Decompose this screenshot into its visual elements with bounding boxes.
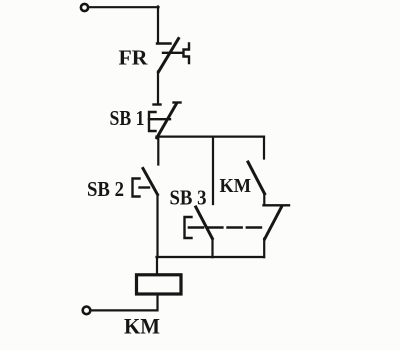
svg-text:FR: FR bbox=[119, 46, 149, 70]
pushbutton SB2 (NO start button) bbox=[133, 169, 158, 197]
svg-text:SB 3: SB 3 bbox=[170, 186, 207, 210]
terminal bottom-left bbox=[83, 307, 91, 315]
wire middle branch down bbox=[212, 137, 214, 204]
node junction bottom rail bbox=[157, 256, 265, 258]
wire KM contact to SB3 NC contact bbox=[263, 194, 265, 206]
pushbutton SB3 (NO jog button) bbox=[185, 207, 213, 239]
node junction top rail bbox=[157, 136, 265, 138]
wire NC contact to bottom rail bbox=[263, 239, 265, 258]
terminal top-left bbox=[81, 4, 88, 11]
wire FR to SB1 bbox=[157, 72, 159, 105]
svg-text:SB 1: SB 1 bbox=[110, 106, 145, 130]
svg-text:KM: KM bbox=[124, 314, 160, 339]
wire coil to terminal bbox=[92, 295, 158, 311]
svg-text:SB 2: SB 2 bbox=[87, 177, 124, 201]
FR thermal element symbol bbox=[184, 44, 190, 64]
pushbutton SB1 (NC stop button) bbox=[149, 103, 181, 138]
contact SB3 NC (linked break contact) bbox=[264, 205, 290, 239]
wire SB3 to bottom rail bbox=[211, 239, 213, 258]
wire top horizontal bbox=[90, 6, 159, 8]
wire vertical to FR bbox=[157, 7, 159, 44]
wire right branch down bbox=[263, 137, 265, 159]
wire to coil bbox=[156, 257, 158, 274]
wire left rail to SB2 bbox=[157, 137, 159, 165]
contact KM (NO self-holding auxiliary) bbox=[248, 162, 265, 194]
FR contact (NC thermal relay contact) bbox=[157, 39, 183, 72]
coil KM bbox=[137, 275, 182, 294]
mechanical linkage dashed bbox=[189, 226, 265, 229]
svg-text:KM: KM bbox=[220, 175, 252, 197]
wire SB2 to bottom rail bbox=[156, 195, 158, 258]
